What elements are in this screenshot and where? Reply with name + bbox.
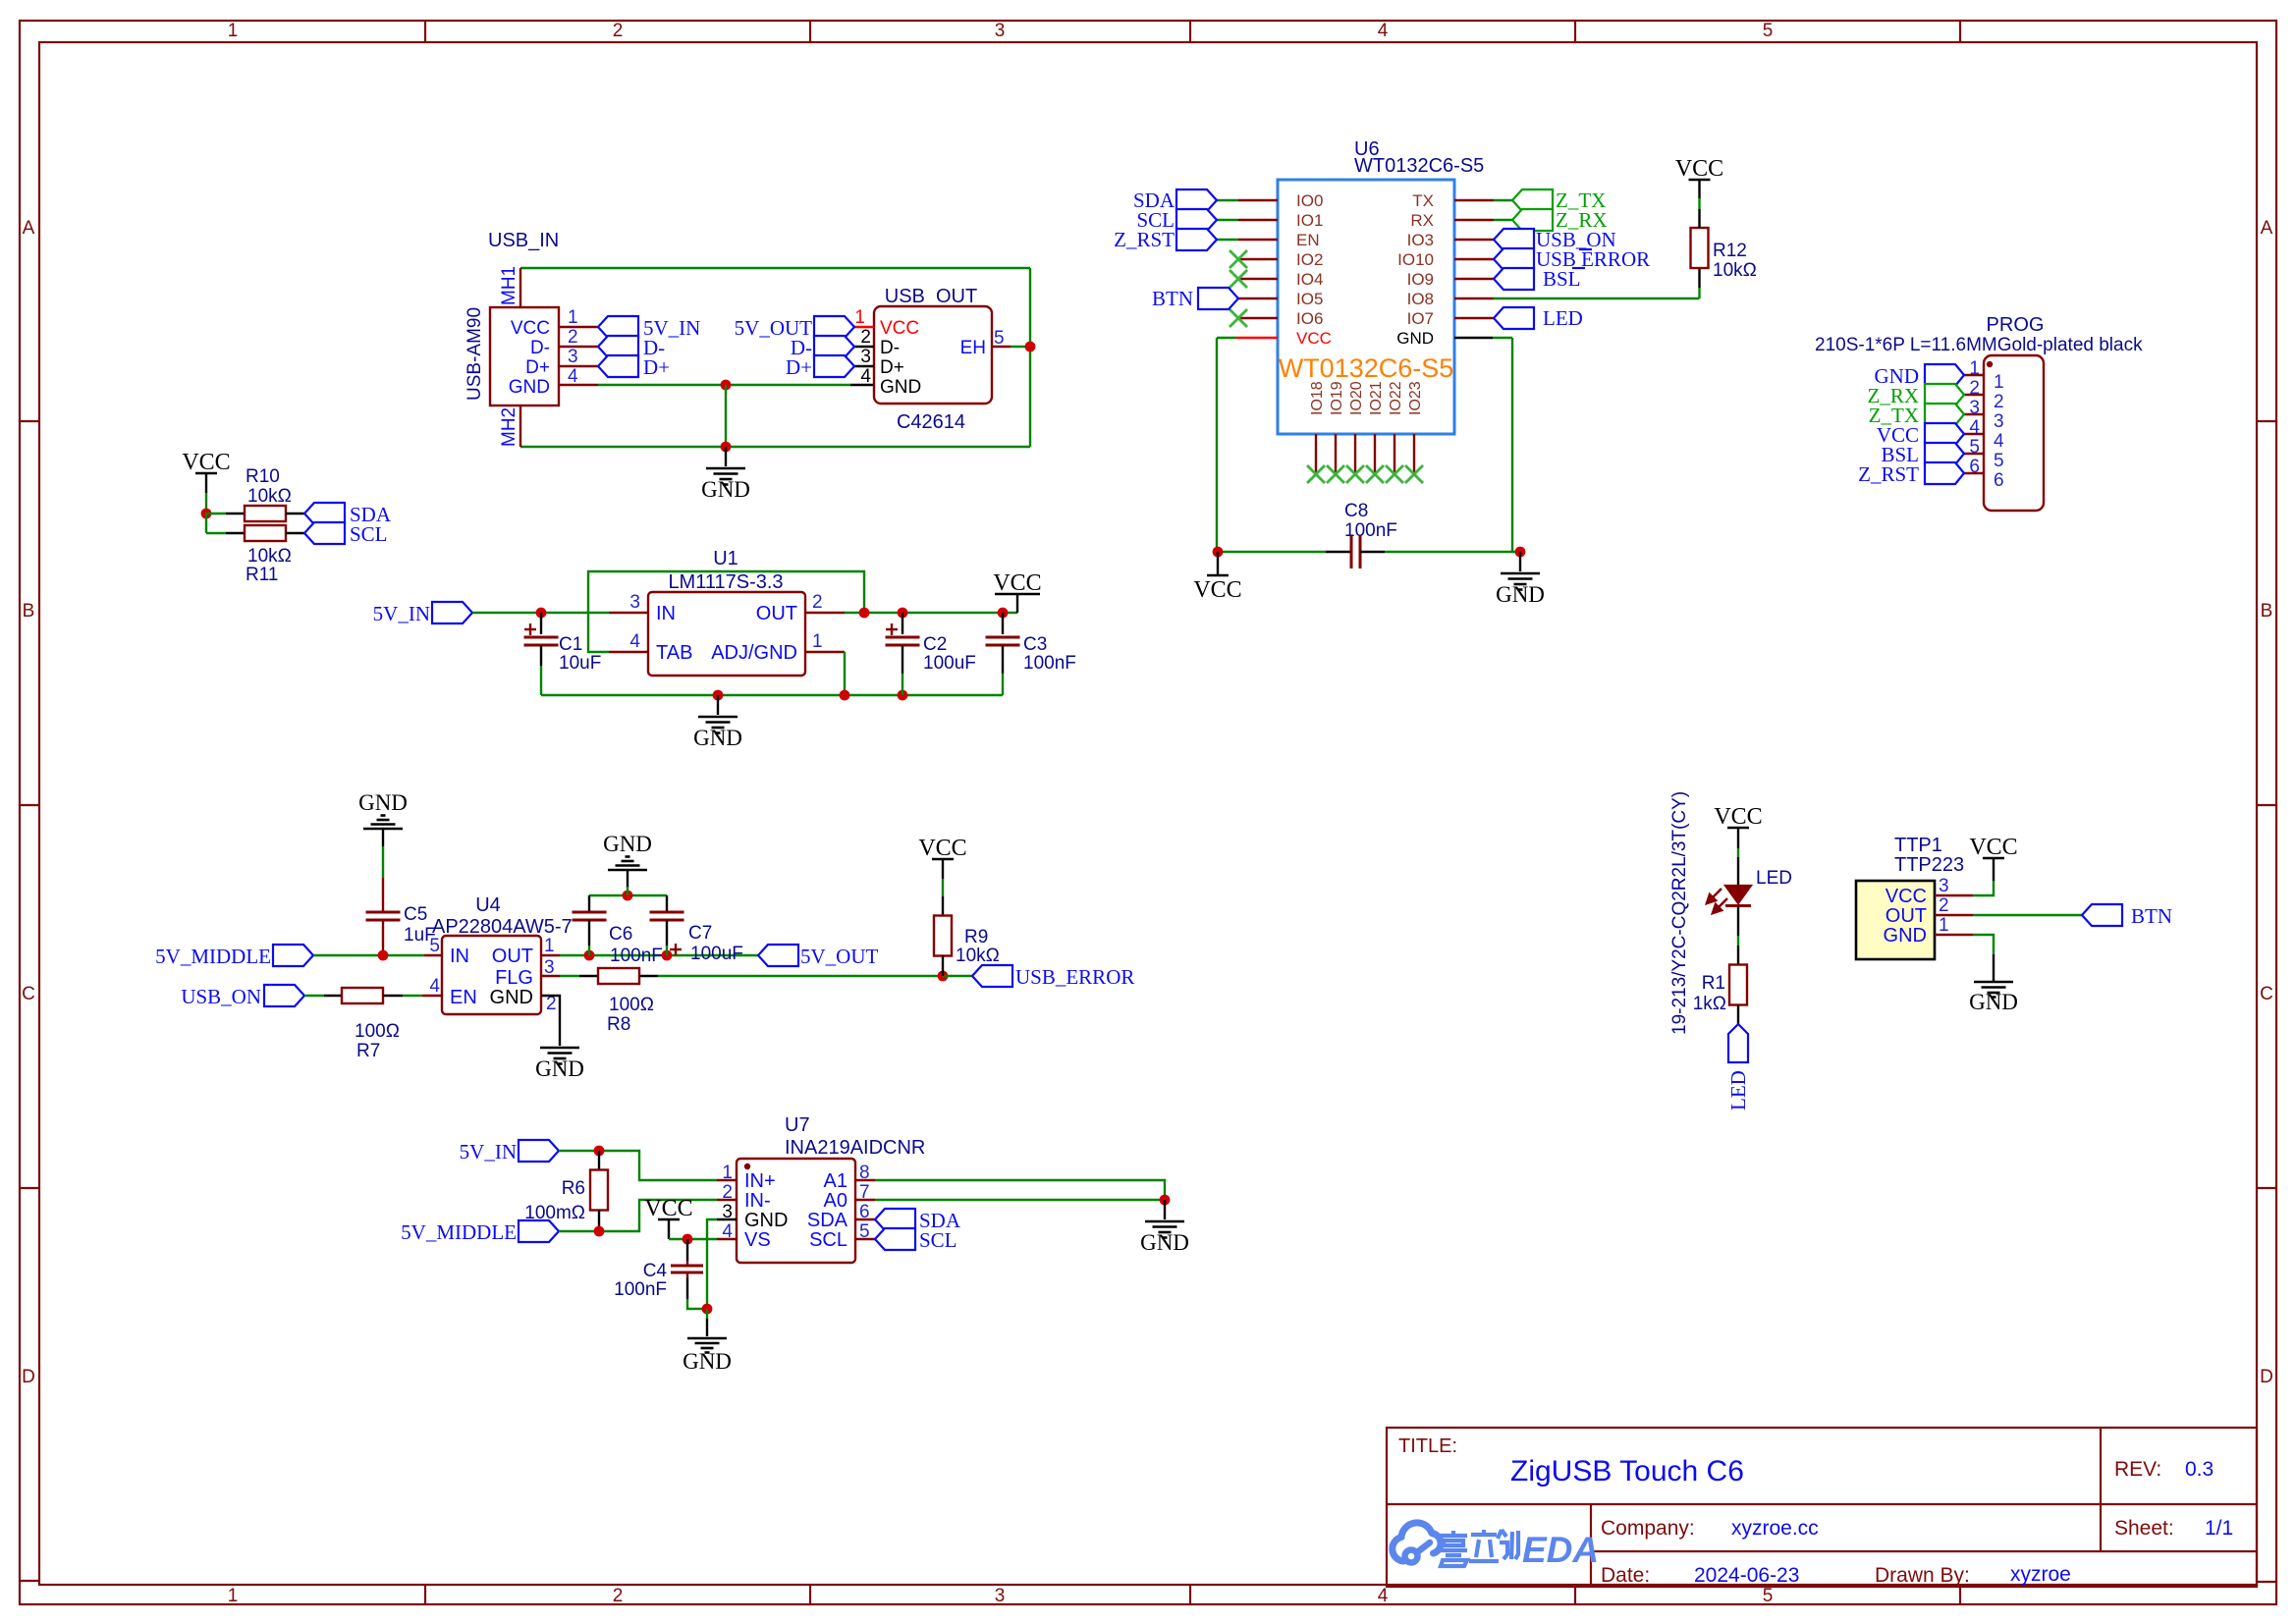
svg-text:D-: D-	[530, 338, 550, 358]
ground symbol above C5	[382, 829, 384, 846]
ground symbol above C6 C7	[627, 870, 629, 888]
svg-text:EN: EN	[1296, 231, 1320, 249]
svg-text:GND: GND	[744, 1210, 788, 1231]
svg-text:GND: GND	[535, 1056, 584, 1081]
svg-text:4: 4	[1378, 1586, 1389, 1606]
pin 5 SCL of U7	[855, 1238, 875, 1240]
pin 2 OUT of TTP1	[1935, 914, 1973, 916]
junction R6 bottom	[594, 1226, 605, 1237]
svg-text:GND: GND	[509, 377, 550, 398]
net flag Z_RX at U6	[1494, 219, 1512, 221]
junction OUT C6	[584, 950, 595, 961]
svg-text:VCC: VCC	[993, 570, 1041, 596]
junction IN node C1	[536, 608, 547, 619]
svg-text:xyzroe: xyzroe	[2010, 1563, 2071, 1586]
svg-text:C42614: C42614	[897, 411, 965, 433]
ground symbol TTP1	[1993, 954, 1995, 981]
svg-text:VCC: VCC	[511, 318, 550, 339]
connector C42614 body	[874, 306, 992, 404]
svg-text:Sheet:: Sheet:	[2114, 1517, 2174, 1540]
wire 5V_MIDDLE to IN-	[559, 1200, 717, 1231]
junction OUT C2	[898, 608, 908, 619]
svg-text:5V_IN: 5V_IN	[460, 1140, 517, 1164]
svg-text:D+: D+	[525, 357, 550, 378]
wire to ground U7	[706, 1309, 708, 1319]
svg-text:U7: U7	[785, 1114, 810, 1136]
svg-text:3: 3	[1939, 876, 1949, 896]
capacitor C2 100uF	[902, 613, 903, 634]
capacitor C7 100uF	[666, 895, 668, 912]
pin 4 EN of U4	[422, 995, 442, 997]
net flag D+ at USB OUT	[814, 355, 854, 377]
svg-text:SCL: SCL	[919, 1228, 957, 1252]
resistor R10 10k	[226, 513, 245, 514]
net flag 5V_OUT at USB OUT	[814, 316, 854, 338]
net flag SDA at R10	[304, 503, 345, 524]
no-connect X IO21	[1366, 465, 1384, 483]
pin 1 ADJ/GND of U1	[805, 651, 845, 653]
svg-text:IN-: IN-	[744, 1190, 771, 1212]
capacitor C8 100nF	[1218, 551, 1326, 553]
wire GND down to symbol	[725, 385, 727, 447]
svg-text:3: 3	[722, 1202, 733, 1222]
net flag 5V_MIDDLE at U7	[519, 1220, 559, 1242]
resistor R11 10k	[226, 532, 245, 534]
pin 2 D- of USB OUT	[854, 346, 874, 348]
net flag D- at USB-AM90	[598, 336, 638, 357]
svg-text:2: 2	[1969, 378, 1980, 399]
svg-text:IO9: IO9	[1407, 270, 1434, 289]
junction GND rail U1	[713, 690, 724, 701]
svg-text:VCC: VCC	[1886, 886, 1927, 907]
pin 5 IN of U4	[424, 954, 442, 956]
svg-text:IO7: IO7	[1407, 309, 1434, 328]
title block frame	[1387, 1428, 2257, 1587]
svg-text:5V_MIDDLE: 5V_MIDDLE	[401, 1220, 517, 1244]
svg-text:1: 1	[1939, 915, 1949, 936]
svg-text:MH2: MH2	[499, 407, 519, 447]
wire U7 GND down	[707, 1219, 717, 1309]
ground symbol U4	[559, 1026, 561, 1046]
svg-text:USB_ON: USB_ON	[181, 985, 261, 1008]
wire ADJ down to GND rail	[844, 652, 846, 695]
regulator U1 body	[648, 592, 805, 676]
net flag USB_ERROR right	[972, 965, 1012, 987]
pin IO2 of U6	[1238, 258, 1278, 260]
wire LED to R1	[1737, 906, 1739, 937]
svg-text:D: D	[22, 1367, 35, 1387]
wire OUT feedback loop to TAB	[588, 571, 864, 652]
no-connect X IO2	[1230, 250, 1247, 268]
svg-text:A: A	[2261, 218, 2273, 239]
svg-text:xyzroe.cc: xyzroe.cc	[1731, 1517, 1819, 1540]
svg-text:PROG: PROG	[1987, 314, 2045, 336]
junction C4 bottom	[702, 1304, 713, 1315]
svg-text:3: 3	[568, 347, 578, 367]
net flag D- at USB OUT	[814, 336, 854, 357]
junction GND wire	[721, 380, 732, 391]
wire OUT to BTN	[1973, 914, 2082, 916]
pin 3 VCC of TTP1	[1935, 894, 1973, 896]
svg-text:TX: TX	[1412, 191, 1434, 210]
svg-text:5V_IN: 5V_IN	[373, 602, 430, 625]
svg-text:Company:: Company:	[1601, 1517, 1695, 1540]
svg-text:R12: R12	[1713, 241, 1747, 261]
pin 4 GND of USB-AM90	[559, 384, 598, 386]
svg-text:C1: C1	[559, 634, 582, 655]
pin 1 VCC of USB-AM90	[559, 326, 598, 328]
svg-text:GND: GND	[1969, 990, 2018, 1014]
net flag USB_ERROR at U6	[1494, 248, 1534, 270]
pin 5 EH of USB OUT	[992, 346, 1011, 348]
svg-text:USB_IN: USB_IN	[488, 230, 559, 251]
net flag SCL at R11	[304, 522, 345, 544]
pin 2 IN- of U7	[717, 1199, 737, 1201]
pin IO23 of U6	[1413, 434, 1415, 472]
LED light arrows	[1707, 889, 1727, 913]
svg-text:2: 2	[860, 327, 871, 348]
svg-text:BTN: BTN	[2131, 904, 2172, 928]
svg-text:10kΩ: 10kΩ	[956, 946, 1000, 966]
svg-text:Z_RST: Z_RST	[1114, 228, 1175, 251]
svg-text:1: 1	[228, 21, 239, 41]
net flag 5V_MIDDLE at U4	[273, 945, 313, 966]
svg-text:1: 1	[1969, 358, 1980, 379]
svg-text:10kΩ: 10kΩ	[247, 546, 292, 567]
pin1 marker dot PROG	[1987, 361, 1993, 367]
svg-text:FLG: FLG	[495, 967, 533, 989]
svg-text:5: 5	[429, 936, 440, 956]
no-connect X IO23	[1405, 465, 1423, 483]
svg-text:6: 6	[1994, 470, 2004, 491]
net flag VCC at PROG pin 4	[1925, 423, 1964, 445]
pin 7 A0 of U7	[855, 1199, 875, 1201]
JLC EDA logo	[1393, 1523, 1441, 1561]
load switch U4 body	[442, 936, 541, 1014]
svg-text:1: 1	[544, 936, 555, 956]
svg-text:VCC: VCC	[182, 450, 230, 475]
junction GND rail C8	[1515, 547, 1526, 558]
pin 6 of PROG	[1964, 472, 1984, 474]
pin1 marker dot U7	[744, 1164, 750, 1169]
pin IO4 of U6	[1238, 278, 1278, 280]
connector USB-AM90 J1 body	[490, 307, 559, 406]
svg-text:LED: LED	[1543, 306, 1583, 330]
capacitor C4 100nF	[686, 1239, 688, 1261]
svg-text:3: 3	[995, 21, 1006, 41]
svg-text:100Ω: 100Ω	[355, 1021, 400, 1042]
svg-text:1: 1	[812, 631, 823, 652]
net flag SCL at U6	[1217, 219, 1238, 221]
svg-text:IO18: IO18	[1309, 381, 1326, 415]
svg-text:3: 3	[629, 592, 640, 613]
net flag 5V_IN at USB-AM90	[598, 316, 638, 338]
pin 3 GND of U7	[717, 1218, 737, 1220]
ground symbol below U6	[1519, 552, 1521, 571]
svg-text:RX: RX	[1410, 211, 1434, 230]
net flag USB_ON at U6	[1494, 229, 1534, 250]
svg-text:LED: LED	[1756, 868, 1792, 889]
svg-text:10kΩ: 10kΩ	[1713, 260, 1757, 281]
svg-text:SCL: SCL	[809, 1229, 847, 1251]
svg-text:GND: GND	[1140, 1230, 1189, 1255]
resistor R7 100	[304, 995, 324, 997]
pin IO0 of U6	[1238, 199, 1278, 201]
svg-text:A: A	[23, 218, 35, 239]
wire R8 to USB_ERROR	[658, 975, 943, 977]
no-connect X IO4	[1230, 270, 1247, 288]
pin 8 A1 of U7	[855, 1179, 875, 1181]
svg-text:EN: EN	[450, 987, 477, 1008]
svg-text:C8: C8	[1344, 501, 1368, 521]
pin MH1	[519, 268, 521, 307]
svg-text:TTP1: TTP1	[1894, 835, 1942, 856]
pin IO7 of U6	[1454, 317, 1494, 319]
pin 2 D- of USB-AM90	[559, 346, 598, 348]
svg-text:U1: U1	[713, 548, 738, 569]
svg-text:4: 4	[629, 631, 640, 652]
no-connect X IO20	[1346, 465, 1364, 483]
touch sensor TTP1 body	[1856, 881, 1935, 959]
svg-text:IO21: IO21	[1368, 381, 1385, 415]
svg-text:1: 1	[722, 1163, 733, 1183]
svg-text:3: 3	[1969, 398, 1980, 418]
svg-text:IO0: IO0	[1296, 191, 1323, 210]
svg-text:USB-AM90: USB-AM90	[465, 307, 485, 401]
svg-text:GND: GND	[1396, 329, 1434, 348]
svg-text:IO1: IO1	[1296, 211, 1323, 230]
net flag Z_RST at PROG pin 6	[1925, 462, 1964, 484]
svg-text:100uF: 100uF	[690, 944, 743, 964]
svg-text:IO20: IO20	[1348, 381, 1365, 415]
svg-text:IO2: IO2	[1296, 250, 1323, 269]
power flag VCC below U6	[1217, 552, 1219, 575]
wire IO8 to R12	[1494, 298, 1700, 299]
svg-text:WT0132C6-S5: WT0132C6-S5	[1279, 353, 1454, 383]
resistor R6 100m	[598, 1151, 600, 1170]
svg-text:GND: GND	[701, 477, 750, 502]
svg-text:5: 5	[1969, 437, 1980, 458]
pin IO9 of U6	[1454, 278, 1494, 280]
svg-text:IO23: IO23	[1407, 381, 1424, 415]
wire to R10	[206, 513, 226, 514]
svg-text:A0: A0	[824, 1190, 847, 1212]
junction GND rail C2	[898, 690, 908, 701]
pin 1 of PROG	[1964, 374, 1984, 376]
ground symbol U1	[717, 695, 719, 715]
svg-text:2: 2	[722, 1182, 733, 1203]
net flag BSL at PROG pin 5	[1925, 443, 1964, 464]
pin IO6 of U6	[1238, 317, 1278, 319]
svg-text:GND: GND	[1884, 925, 1927, 947]
pin 1 VCC of USB OUT	[854, 326, 874, 328]
svg-text:ADJ/GND: ADJ/GND	[711, 642, 797, 664]
svg-text:D-: D-	[880, 338, 900, 358]
svg-text:TAB: TAB	[656, 642, 692, 664]
svg-text:5: 5	[1763, 21, 1774, 41]
capacitor C5 1uF	[382, 878, 384, 912]
pin VCC of U6	[1236, 337, 1278, 339]
svg-text:GND: GND	[1496, 582, 1545, 607]
wire GND pin of U6	[1493, 337, 1512, 339]
svg-text:1/1: 1/1	[2205, 1517, 2233, 1540]
net flag Z_TX at PROG pin 3	[1925, 404, 1964, 425]
wire U1 bottom GND rail	[541, 694, 1003, 696]
svg-text:4: 4	[722, 1221, 733, 1242]
junction C5 node	[378, 950, 389, 961]
wire USB EH right vertical	[1029, 268, 1031, 447]
svg-text:R11: R11	[246, 565, 278, 585]
pin IO8 of U6	[1454, 298, 1494, 299]
svg-text:4: 4	[1969, 417, 1980, 438]
pin 1 GND of TTP1	[1935, 934, 1973, 936]
pin 3 D+ of USB OUT	[854, 365, 874, 367]
junction OUT C3	[998, 608, 1009, 619]
net flag BSL at U6	[1494, 268, 1534, 290]
pin IO5 of U6	[1238, 298, 1278, 299]
svg-text:3: 3	[1994, 411, 2004, 432]
svg-text:4: 4	[1378, 21, 1389, 41]
svg-text:IO5: IO5	[1296, 290, 1323, 308]
svg-text:U4: U4	[475, 894, 501, 916]
net flag D+ at USB-AM90	[598, 355, 638, 377]
svg-text:3: 3	[995, 1586, 1006, 1606]
svg-text:C2: C2	[923, 634, 947, 655]
no-connect X IO19	[1327, 465, 1344, 483]
svg-text:6: 6	[1969, 457, 1980, 477]
wire GND of TTP1	[1973, 935, 1994, 954]
pin IO1 of U6	[1238, 219, 1278, 221]
svg-text:R7: R7	[356, 1041, 380, 1061]
wire GND net between connectors	[598, 384, 850, 386]
no-connect X IO22	[1386, 465, 1403, 483]
junction VCC R10	[201, 509, 212, 519]
svg-text:C: C	[22, 984, 35, 1004]
svg-text:4: 4	[429, 976, 440, 997]
svg-text:IO6: IO6	[1296, 309, 1323, 328]
svg-text:1kΩ: 1kΩ	[1693, 994, 1726, 1014]
capacitor C1 10uF	[540, 613, 542, 634]
wire 5V_IN to U1 IN	[472, 612, 609, 614]
svg-text:D: D	[2260, 1367, 2273, 1387]
pin 2 OUT of U1	[805, 612, 845, 614]
svg-text:2: 2	[568, 327, 578, 348]
svg-text:5: 5	[1994, 451, 2004, 471]
svg-text:B: B	[23, 601, 35, 622]
svg-text:2: 2	[1939, 895, 1949, 916]
svg-text:R10: R10	[246, 466, 280, 487]
svg-text:OUT: OUT	[756, 603, 797, 624]
svg-text:SCL: SCL	[350, 522, 388, 546]
svg-text:LM1117S-3.3: LM1117S-3.3	[668, 571, 783, 593]
pin 3 FLG of U4	[541, 975, 560, 977]
pin EN of U6	[1238, 239, 1278, 241]
svg-text:OUT: OUT	[492, 946, 533, 967]
resistor R9 10k	[942, 896, 944, 916]
svg-text:100nF: 100nF	[1023, 653, 1076, 674]
wire OUT to VCC	[845, 612, 1017, 614]
svg-text:IO3: IO3	[1407, 231, 1434, 249]
svg-text:C7: C7	[688, 923, 712, 944]
pin RX of U6	[1454, 219, 1494, 221]
svg-text:VCC: VCC	[644, 1196, 692, 1221]
svg-text:USB_ERROR: USB_ERROR	[1015, 965, 1134, 989]
pin IO19 of U6	[1335, 434, 1337, 472]
svg-text:GND: GND	[358, 790, 408, 815]
svg-text:VCC: VCC	[1714, 804, 1762, 830]
svg-text:GND: GND	[683, 1349, 732, 1374]
no-connect X IO6	[1230, 309, 1247, 327]
svg-text:2024-06-23: 2024-06-23	[1694, 1564, 1799, 1587]
svg-text:IO4: IO4	[1296, 270, 1323, 289]
pin IO3 of U6	[1454, 239, 1494, 241]
svg-text:WT0132C6-S5: WT0132C6-S5	[1354, 155, 1484, 177]
pin TX of U6	[1454, 199, 1494, 201]
svg-text:VCC: VCC	[1969, 835, 2017, 860]
pin 5 of PROG	[1964, 453, 1984, 455]
wire C6 C7 top rail	[589, 894, 667, 896]
svg-text:D+: D+	[786, 355, 812, 379]
svg-text:INA219AIDCNR: INA219AIDCNR	[785, 1137, 925, 1159]
svg-text:100nF: 100nF	[614, 1279, 667, 1300]
net flag 5V_IN at U1	[432, 602, 472, 623]
wire USB MH2 bottom	[520, 446, 1030, 448]
svg-text:19-213/Y2C-CQ2R2L/3T(CY): 19-213/Y2C-CQ2R2L/3T(CY)	[1669, 791, 1690, 1035]
pin IO20 of U6	[1354, 434, 1356, 472]
svg-text:0.3: 0.3	[2185, 1458, 2214, 1481]
junction OUT feedback	[859, 608, 870, 619]
svg-text:GND: GND	[693, 726, 742, 750]
connector PROG body	[1984, 355, 2044, 511]
svg-text:R1: R1	[1702, 973, 1725, 994]
svg-text:C4: C4	[643, 1261, 668, 1281]
pin IO18 of U6	[1315, 434, 1317, 472]
wire 5V_MIDDLE to IN	[313, 954, 424, 956]
net flag SCL at U7	[875, 1228, 915, 1250]
svg-text:Drawn By:: Drawn By:	[1875, 1564, 1970, 1587]
pin 3 IN of U1	[609, 612, 648, 614]
svg-text:C: C	[2260, 984, 2273, 1004]
svg-text:D+: D+	[880, 357, 904, 378]
junction C4 top	[683, 1234, 693, 1245]
net flag USB_ON at R7	[264, 985, 304, 1006]
svg-text:3: 3	[860, 347, 871, 367]
wire VCC pin to rail	[1217, 337, 1236, 339]
svg-text:IO8: IO8	[1407, 290, 1434, 308]
svg-text:A1: A1	[824, 1170, 847, 1192]
capacitor C6 100nF	[588, 895, 590, 912]
pin 4 VS of U7	[717, 1238, 737, 1240]
svg-text:AP22804AW5-7: AP22804AW5-7	[432, 916, 573, 938]
module U6 body	[1278, 180, 1454, 434]
pin MH2	[519, 406, 521, 447]
svg-text:C5: C5	[404, 904, 427, 925]
net flag BTN right	[2082, 904, 2122, 926]
svg-text:5: 5	[994, 328, 1005, 349]
svg-text:2: 2	[1994, 392, 2004, 412]
pin 4 TAB of U1	[609, 651, 648, 653]
svg-text:EDA: EDA	[1522, 1530, 1599, 1570]
svg-text:IO22: IO22	[1388, 381, 1404, 415]
svg-text:7: 7	[859, 1182, 870, 1203]
resistor R8 100	[579, 975, 598, 977]
pin IO21 of U6	[1374, 434, 1376, 472]
svg-text:Z_RST: Z_RST	[1858, 462, 1919, 486]
svg-text:GND: GND	[880, 377, 921, 398]
junction A0 A1 node	[1160, 1195, 1171, 1206]
svg-text:VCC: VCC	[1675, 156, 1723, 182]
resistor R1 1k	[1737, 946, 1739, 964]
